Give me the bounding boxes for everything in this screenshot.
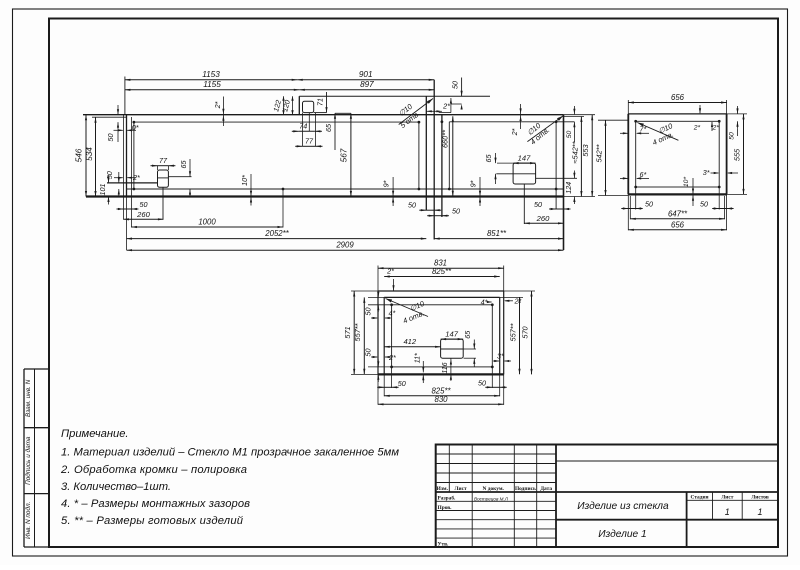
- svg-text:9*: 9*: [469, 180, 478, 187]
- svg-text:3*: 3*: [497, 352, 504, 361]
- dim 124: [536, 177, 577, 179]
- left dim 50 top: [117, 105, 119, 115]
- panel1: hole marks: [133, 121, 136, 124]
- panel4 dim 50 left upper: [368, 296, 384, 298]
- svg-text:10*: 10*: [240, 175, 249, 186]
- left dim 546: [85, 115, 87, 197]
- svg-text:2052**: 2052**: [264, 229, 289, 238]
- svg-text:50: 50: [140, 200, 148, 209]
- svg-text:557**: 557**: [509, 322, 518, 341]
- panel3 bottom dim 647**: [629, 196, 631, 219]
- panel4 bottom dim 825**: [383, 374, 385, 396]
- panel1: bottom-left step edge: [107, 182, 158, 184]
- svg-text:50: 50: [452, 206, 460, 215]
- panel4 dim 4* left: [371, 317, 377, 319]
- cutout C in panel2: [513, 163, 536, 184]
- svg-text:Утв.: Утв.: [438, 542, 450, 548]
- panel3 bottom dim 656: [627, 194, 629, 230]
- bottom dims: 2052**: [127, 238, 427, 240]
- svg-text:570: 570: [521, 325, 530, 338]
- dim 65 cutout D: [463, 348, 476, 350]
- svg-text:546: 546: [75, 148, 84, 162]
- bottom dims row: 50 left: [124, 208, 132, 210]
- panel3 dims 2* 2*: [699, 105, 701, 113]
- panel1: hole offset line bottom: [127, 188, 564, 190]
- svg-text:Стадия: Стадия: [691, 494, 709, 500]
- svg-text:2*: 2*: [386, 267, 394, 276]
- panel3 dim 3*: [711, 172, 719, 174]
- cutout C center line down: [523, 184, 525, 224]
- svg-text:571: 571: [343, 326, 352, 338]
- dim 147 cutout D: [441, 338, 464, 340]
- svg-text:10*: 10*: [683, 177, 690, 188]
- svg-text:50: 50: [478, 379, 486, 388]
- svg-text:77: 77: [159, 156, 168, 165]
- title block revision rows: [436, 453, 556, 455]
- svg-text:Подпись: Подпись: [515, 486, 536, 492]
- dim 77 cutout A: [158, 165, 169, 167]
- left attribute strip boxes: [24, 368, 49, 370]
- svg-text:N докум.: N докум.: [483, 486, 505, 492]
- bottom dims: 50 right panel2: [556, 208, 563, 210]
- dim 660** panel2 glass height: [452, 116, 454, 196]
- svg-text:74: 74: [299, 122, 307, 131]
- panel1: bottom thick edge: [86, 195, 564, 197]
- svg-text:851**: 851**: [487, 229, 507, 238]
- svg-text:≈542**: ≈542**: [570, 140, 579, 163]
- svg-text:557**: 557**: [353, 322, 362, 341]
- svg-text:65: 65: [324, 123, 333, 132]
- leader hole note panel2: d10 4 otv: [527, 116, 563, 142]
- svg-text:830: 830: [434, 395, 448, 404]
- cutout B detail lines + dim 71: [314, 112, 327, 114]
- title block outline: [436, 445, 778, 548]
- dim 65 cutout A: [168, 176, 191, 178]
- panel4 dim 50 left lower: [368, 366, 392, 368]
- svg-text:147: 147: [518, 154, 531, 163]
- svg-text:65: 65: [484, 154, 493, 163]
- panel4 dim 557** right: [500, 296, 523, 298]
- svg-text:6*: 6*: [640, 170, 647, 179]
- svg-text:2909: 2909: [335, 241, 354, 250]
- dim 147 cutout C: [496, 173, 513, 175]
- svg-text:1: 1: [725, 507, 730, 517]
- svg-text:5. ** – Размеры готовых и: 5. ** – Размеры готовых изделий: [61, 515, 243, 527]
- bottom dims: 260 left: [124, 218, 164, 220]
- svg-text:553: 553: [581, 143, 590, 156]
- svg-text:50: 50: [645, 200, 653, 209]
- panel3 bottom dims 50 50: [635, 187, 637, 210]
- svg-text:4*: 4*: [389, 309, 396, 318]
- svg-text:656: 656: [671, 93, 685, 102]
- top dim 897: [299, 89, 434, 91]
- panel4 dim 412: [384, 346, 440, 348]
- panel3: hole leader d10 4 otv: [637, 123, 678, 141]
- opening division line: [433, 80, 435, 240]
- panel4 top dim 825**: [384, 276, 500, 278]
- panel4 bottom dim 830: [377, 374, 379, 404]
- svg-text:7*: 7*: [640, 125, 647, 134]
- svg-text:656: 656: [671, 220, 685, 229]
- svg-text:260: 260: [136, 210, 150, 219]
- panel2: glass left edge: [441, 115, 443, 217]
- svg-text:Взам. инв. N: Взам. инв. N: [25, 379, 32, 417]
- svg-text:65: 65: [463, 330, 472, 339]
- panel1: inset hole line left: [133, 122, 135, 189]
- panel4 dim 571: [351, 290, 378, 292]
- top dim 901: [297, 79, 434, 81]
- cutout A bottom-left of panel1: [158, 170, 169, 187]
- svg-text:1: 1: [757, 507, 762, 517]
- dim 77: [302, 145, 315, 147]
- panel3 dim 50 top-right: [737, 106, 739, 114]
- svg-text:Подпись и дата: Подпись и дата: [24, 436, 32, 485]
- svg-text:260: 260: [536, 214, 550, 223]
- cutout B top-right of panel1: [303, 101, 314, 112]
- svg-text:50: 50: [398, 379, 406, 388]
- svg-text:2*: 2*: [693, 125, 701, 132]
- svg-text:534: 534: [85, 147, 94, 161]
- svg-text:825**: 825**: [432, 267, 452, 276]
- panel4: opening contour: [378, 290, 504, 292]
- dim 0*: [123, 115, 125, 220]
- svg-text:2*: 2*: [514, 297, 522, 306]
- panel4 top dim 831: [377, 266, 379, 292]
- panel3 top dim 656: [627, 100, 629, 114]
- svg-text:1. Материал изделий – Стекл: 1. Материал изделий – Стекло М1 прозрачн…: [61, 447, 399, 459]
- svg-text:124: 124: [564, 182, 573, 194]
- svg-text:1153: 1153: [202, 70, 220, 79]
- panel4 dim 557** left: [363, 297, 365, 374]
- svg-text:147: 147: [445, 329, 458, 338]
- panel1: inset hole line right: [418, 122, 420, 189]
- svg-text:Вострецов М.Л: Вострецов М.Л: [474, 496, 509, 501]
- svg-text:647**: 647**: [668, 209, 688, 218]
- svg-text:50: 50: [408, 201, 416, 210]
- panel4: glass contour: [384, 296, 500, 298]
- svg-text:Разраб.: Разраб.: [438, 495, 457, 502]
- dim 567 vertical: [350, 113, 352, 196]
- panel2: glass right edge: [563, 115, 565, 250]
- svg-text:901: 901: [359, 70, 373, 79]
- svg-text:2*: 2*: [213, 101, 222, 109]
- svg-text:4 отв.: 4 отв.: [401, 308, 425, 325]
- svg-text:1155: 1155: [203, 80, 221, 89]
- title block bottom rows: [436, 500, 556, 502]
- leader hole note panel1: d10 5 otv: [399, 99, 433, 125]
- svg-text:897: 897: [360, 80, 374, 89]
- bottom dims: 260 right: [524, 222, 563, 224]
- svg-text:4*: 4*: [481, 298, 488, 307]
- svg-text:50: 50: [364, 349, 373, 357]
- svg-text:77: 77: [305, 137, 314, 146]
- dim 116 cutout D: [450, 358, 452, 381]
- svg-text:50: 50: [729, 132, 736, 140]
- dim 542** panel3 left: [598, 119, 629, 121]
- svg-text:Инв. N подл.: Инв. N подл.: [24, 502, 32, 539]
- panel2 top-left construction: [461, 78, 463, 97]
- svg-text:101: 101: [98, 184, 107, 196]
- dim approx542 panel2: [564, 116, 585, 118]
- svg-text:120: 120: [280, 99, 292, 113]
- stadia/list/listov cells: [686, 492, 688, 547]
- panel1: raised step top edge: [299, 95, 490, 97]
- svg-text:50: 50: [106, 134, 115, 142]
- svg-text:Пров.: Пров.: [438, 505, 453, 511]
- panel3: inset hole rect: [636, 121, 720, 187]
- bottom dims: 851**: [434, 238, 563, 240]
- panel3: outer contour: [628, 113, 726, 115]
- svg-text:71: 71: [316, 98, 325, 106]
- dim 65 cutout C: [497, 162, 513, 164]
- panel2: inset hole lines: [449, 121, 574, 123]
- panel4 bottom dims 50 50: [391, 367, 393, 388]
- svg-text:2*: 2*: [712, 125, 720, 132]
- panel1: inset hole line top: [134, 121, 419, 123]
- panel4: hole leader d10 4 otv: [386, 299, 429, 317]
- svg-text:555: 555: [733, 148, 742, 161]
- dim 50 top-right panel2: [573, 106, 575, 114]
- svg-text:567: 567: [340, 148, 349, 162]
- svg-text:4. * – Размеры монтажных: 4. * – Размеры монтажных зазоров: [61, 498, 250, 510]
- svg-text:50: 50: [450, 81, 459, 89]
- svg-text:2*: 2*: [510, 128, 519, 136]
- svg-text:50: 50: [534, 200, 542, 209]
- dim 553: [564, 114, 596, 116]
- svg-text:50: 50: [700, 200, 708, 209]
- svg-text:Изделие 1: Изделие 1: [598, 529, 646, 540]
- bottom dims: 50 pair at division: [426, 209, 434, 211]
- panel1: step vertical: [298, 96, 300, 115]
- svg-text:Листов: Листов: [751, 494, 769, 500]
- svg-text:Дата: Дата: [540, 486, 552, 492]
- panel3 dim 6*: [620, 177, 628, 179]
- cutout D in panel4: [441, 339, 464, 358]
- panel4 dim 570 right: [504, 290, 535, 292]
- panel4: inset hole rect: [392, 305, 493, 367]
- svg-text:Примечание.: Примечание.: [61, 428, 129, 440]
- dim 65 near cutout B: [334, 113, 336, 150]
- svg-text:2*: 2*: [442, 102, 450, 111]
- bottom dims: 2909: [127, 249, 564, 251]
- title block revision columns: [448, 445, 450, 493]
- svg-text:Лист: Лист: [455, 486, 468, 492]
- panel3 dim 555 right: [727, 113, 747, 115]
- svg-text:Изм.: Изм.: [437, 486, 449, 492]
- top dim 1153: [124, 77, 126, 115]
- svg-text:Изделие из стекла: Изделие из стекла: [577, 501, 669, 512]
- svg-text:116: 116: [442, 362, 449, 373]
- svg-text:50: 50: [566, 131, 573, 139]
- dim 74: [299, 130, 315, 132]
- svg-text:9*: 9*: [382, 180, 391, 187]
- svg-text:1000: 1000: [198, 218, 216, 227]
- svg-text:3*: 3*: [703, 168, 710, 177]
- svg-text:542**: 542**: [594, 143, 603, 162]
- panel1: glass right edge: [425, 96, 427, 210]
- svg-text:Лист: Лист: [721, 494, 734, 500]
- bottom dims: 1000: [131, 226, 283, 228]
- panel3 dim 7*: [620, 132, 628, 134]
- svg-text:65: 65: [179, 160, 188, 169]
- svg-text:11*: 11*: [415, 353, 422, 363]
- svg-text:412: 412: [403, 337, 416, 346]
- svg-text:3. Количество–1шт.: 3. Количество–1шт.: [61, 481, 171, 493]
- svg-text:660**: 660**: [440, 129, 449, 148]
- svg-text:50: 50: [364, 308, 373, 316]
- left dim 534: [92, 116, 127, 118]
- svg-text:2. Обработка кромки – поли: 2. Обработка кромки – полировка: [60, 464, 247, 476]
- panel1: glass left edge: [126, 115, 128, 197]
- panel1: opening top edge: [83, 114, 564, 116]
- top dim 1155: [125, 89, 299, 91]
